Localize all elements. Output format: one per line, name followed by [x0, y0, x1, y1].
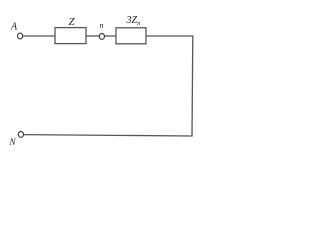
svg-text:n: n [100, 21, 104, 30]
terminal A (circle) [18, 33, 23, 39]
terminal N (circle) [18, 132, 23, 138]
svg-text:N: N [9, 137, 17, 147]
wire bottom return to N [24, 135, 193, 136]
svg-text:A: A [10, 22, 18, 33]
impedance 3Zn (box) [116, 28, 146, 44]
node n (circle) [99, 34, 104, 40]
wire right vertical [191, 35, 194, 135]
impedance Z (box) [55, 28, 86, 44]
wire Z box to node n [86, 35, 99, 37]
wire 3Zn box to right corner [146, 35, 193, 37]
svg-text:Z: Z [69, 16, 76, 28]
wire node n to 3Zn box [105, 35, 116, 37]
wire A to Z box [23, 35, 55, 37]
